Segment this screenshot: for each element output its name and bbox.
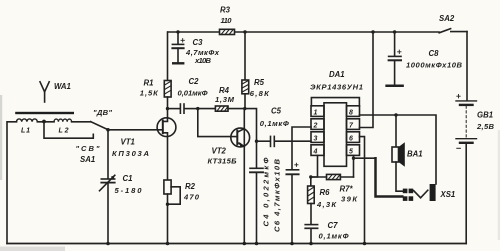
wire IC pin2 to C6 bbox=[292, 127, 311, 169]
svg-text:110: 110 bbox=[221, 16, 233, 25]
wire R5 column from rail bbox=[244, 32, 246, 80]
svg-text:1: 1 bbox=[314, 109, 318, 116]
svg-text:3: 3 bbox=[314, 135, 318, 142]
pin 7 cell bbox=[347, 119, 360, 130]
resistor R5 bbox=[242, 80, 249, 94]
svg-text:39К: 39К bbox=[341, 194, 358, 203]
wire R7 leads bbox=[311, 176, 354, 178]
node rail pin6 bbox=[363, 242, 367, 246]
wire pin 8 output bbox=[360, 115, 437, 184]
svg-text:КТ315Б: КТ315Б bbox=[208, 156, 238, 165]
battery GB1 bbox=[456, 95, 477, 244]
antenna WA1 bbox=[40, 82, 49, 102]
jack XS1 contacts bbox=[403, 189, 413, 201]
svg-text:C3: C3 bbox=[193, 38, 204, 47]
scan artifact bottom left bbox=[0, 247, 65, 251]
svg-text:4: 4 bbox=[313, 148, 318, 155]
wire tap to SV contact bbox=[44, 122, 93, 139]
svg-text:5-180: 5-180 bbox=[115, 186, 143, 195]
wire pin 4 drop bbox=[311, 155, 318, 177]
svg-text:470: 470 bbox=[183, 192, 200, 201]
capacitor C2 bbox=[180, 104, 184, 113]
pin 4 cell bbox=[311, 145, 324, 156]
wire pin 6 to ground rail bbox=[360, 137, 365, 244]
pin 3 cell bbox=[311, 132, 324, 143]
wire R1 bottom to node bbox=[167, 97, 169, 109]
node C4/C5 junction bbox=[255, 140, 258, 143]
wire R4 to collector node bbox=[228, 108, 245, 110]
svg-text:2: 2 bbox=[313, 122, 318, 129]
pin 8 cell bbox=[347, 106, 360, 117]
wire L2 right to switch contact bbox=[72, 121, 91, 123]
node coil tap bbox=[42, 120, 46, 124]
svg-text:1,5К: 1,5К bbox=[140, 88, 159, 97]
resistor R2 bbox=[164, 180, 180, 244]
svg-text:C7: C7 bbox=[328, 221, 339, 230]
pin 5 cell bbox=[347, 145, 360, 156]
svg-text:R6: R6 bbox=[320, 188, 331, 197]
svg-text:SA1: SA1 bbox=[80, 155, 95, 164]
wire top rail right of SA2 bbox=[451, 31, 467, 33]
wire VT2 base from C2/R4 node bbox=[198, 109, 238, 137]
capacitor C3 bbox=[172, 32, 184, 63]
node R4/R5/VT2 collector bbox=[243, 107, 246, 110]
svg-text:0,1мкФ: 0,1мкФ bbox=[260, 119, 289, 128]
node rail C6 bbox=[290, 242, 294, 246]
resistor R4 bbox=[215, 106, 228, 111]
node rail C4 bbox=[255, 242, 259, 246]
node R6/R7 junction bbox=[309, 175, 312, 178]
transistor VT1 KP303A bbox=[157, 109, 176, 180]
svg-text:L1: L1 bbox=[21, 127, 30, 134]
wire pin 5 drop bbox=[353, 155, 355, 177]
capacitor C7 bbox=[305, 204, 317, 244]
node gate junction bbox=[106, 128, 110, 132]
svg-text:VT2: VT2 bbox=[212, 146, 227, 155]
svg-text:R1: R1 bbox=[144, 78, 154, 87]
pin 1 cell bbox=[311, 106, 324, 117]
wire C5 to IC pin 3 bbox=[275, 140, 311, 142]
resistor R6 bbox=[308, 177, 315, 204]
node speaker junction on pin8 wire bbox=[394, 113, 397, 116]
capacitor C1 variable bbox=[100, 130, 115, 244]
node R1/C2/VT1 drain bbox=[166, 107, 169, 110]
capacitor C4 bbox=[250, 141, 263, 243]
svg-text:1000мкФх10В: 1000мкФх10В bbox=[406, 60, 463, 69]
svg-text:1,3М: 1,3М bbox=[215, 95, 235, 104]
svg-text:C2: C2 bbox=[189, 77, 200, 86]
node rail C7 bbox=[309, 242, 313, 246]
wire right vertical to battery bbox=[466, 32, 468, 101]
node rail C1 bbox=[106, 242, 110, 246]
wire pin 7 to supply rail bbox=[360, 32, 374, 128]
capacitor C5 bbox=[271, 136, 275, 146]
wire R1 column from rail bbox=[167, 32, 169, 81]
switch SA2 bbox=[439, 29, 450, 33]
speaker BA1 bbox=[392, 115, 405, 191]
resistor R1 bbox=[164, 81, 171, 98]
transistor VT2 KT315B bbox=[231, 109, 250, 244]
wire L1 left terminal bbox=[7, 122, 17, 244]
wire node to R4 bbox=[198, 108, 216, 110]
capacitor C6 bbox=[286, 163, 298, 243]
node top rail pin7 junction bbox=[371, 30, 374, 33]
node top rail R5 junction bbox=[243, 30, 246, 33]
wire R5 to collector node bbox=[244, 94, 246, 109]
wire gate row bbox=[108, 129, 163, 131]
svg-text:WA1: WA1 bbox=[54, 82, 71, 91]
ferrite rod bbox=[15, 112, 74, 114]
svg-text:ЭКР1436УН1: ЭКР1436УН1 bbox=[310, 82, 363, 91]
svg-text:XS1: XS1 bbox=[440, 190, 456, 199]
IC DA1 pin1-pin8 top bridge wire bbox=[311, 98, 359, 106]
node top rail C8 junction bbox=[393, 30, 396, 33]
pin 2 cell bbox=[311, 119, 324, 130]
IC DA1 body bbox=[324, 103, 347, 167]
jack XS1 body bbox=[430, 184, 436, 201]
svg-text:DA1: DA1 bbox=[329, 70, 345, 79]
scan artifact right edge bbox=[498, 130, 500, 240]
wire node to C2 bbox=[168, 108, 180, 110]
node rail VT2 emitter bbox=[243, 242, 247, 246]
wire pin5 to jack (thick) bbox=[354, 157, 376, 159]
wire C5 row to pin3 bbox=[257, 140, 271, 142]
svg-text:0,01мкФ: 0,01мкФ bbox=[178, 88, 208, 97]
svg-text:C8: C8 bbox=[429, 49, 440, 58]
node C2/R4/VT2 base bbox=[196, 107, 199, 110]
resistor R3 bbox=[220, 29, 235, 34]
svg-text:"ДВ": "ДВ" bbox=[93, 108, 112, 117]
pin 6 cell bbox=[347, 132, 360, 143]
svg-text:R3: R3 bbox=[220, 5, 231, 14]
svg-text:6: 6 bbox=[349, 135, 353, 142]
svg-text:2,5В: 2,5В bbox=[476, 122, 495, 131]
svg-text:BA1: BA1 bbox=[407, 149, 423, 158]
svg-text:8: 8 bbox=[349, 109, 353, 116]
svg-text:C1: C1 bbox=[123, 174, 133, 183]
svg-text:R4: R4 bbox=[219, 86, 230, 95]
svg-text:VT1: VT1 bbox=[121, 137, 135, 146]
wire bottom ground rail bbox=[7, 243, 466, 245]
svg-text:GB1: GB1 bbox=[477, 110, 493, 119]
svg-text:R2: R2 bbox=[185, 182, 196, 191]
wire C2 to node bbox=[184, 108, 197, 110]
switch SA1 lever bbox=[91, 122, 108, 130]
wire L1-L2 link bbox=[37, 121, 54, 123]
jack XS1 spring contact bbox=[414, 190, 428, 198]
svg-text:4,3К: 4,3К bbox=[316, 200, 337, 209]
node pin5 junction bbox=[352, 157, 355, 160]
wire collector node elbow to C5/C4 bbox=[245, 109, 257, 142]
svg-text:5: 5 bbox=[349, 148, 353, 155]
svg-text:6,8К: 6,8К bbox=[250, 89, 270, 98]
node top rail C3 junction bbox=[176, 30, 179, 33]
coil L1 bbox=[17, 119, 38, 122]
resistor R7 bbox=[327, 174, 341, 179]
svg-text:0,1мкФ: 0,1мкФ bbox=[319, 231, 349, 240]
svg-text:х10В: х10В bbox=[194, 56, 212, 65]
capacitor C8 bbox=[387, 32, 403, 86]
coil L2 bbox=[54, 119, 72, 122]
svg-text:SA2: SA2 bbox=[439, 14, 455, 23]
scan artifact left edge bbox=[0, 95, 2, 180]
node rail VT1 source bbox=[166, 242, 170, 246]
wire top supply rail left segment bbox=[168, 31, 439, 33]
svg-text:R5: R5 bbox=[254, 78, 265, 87]
svg-text:R7*: R7* bbox=[340, 184, 354, 193]
svg-text:C5: C5 bbox=[271, 106, 282, 115]
